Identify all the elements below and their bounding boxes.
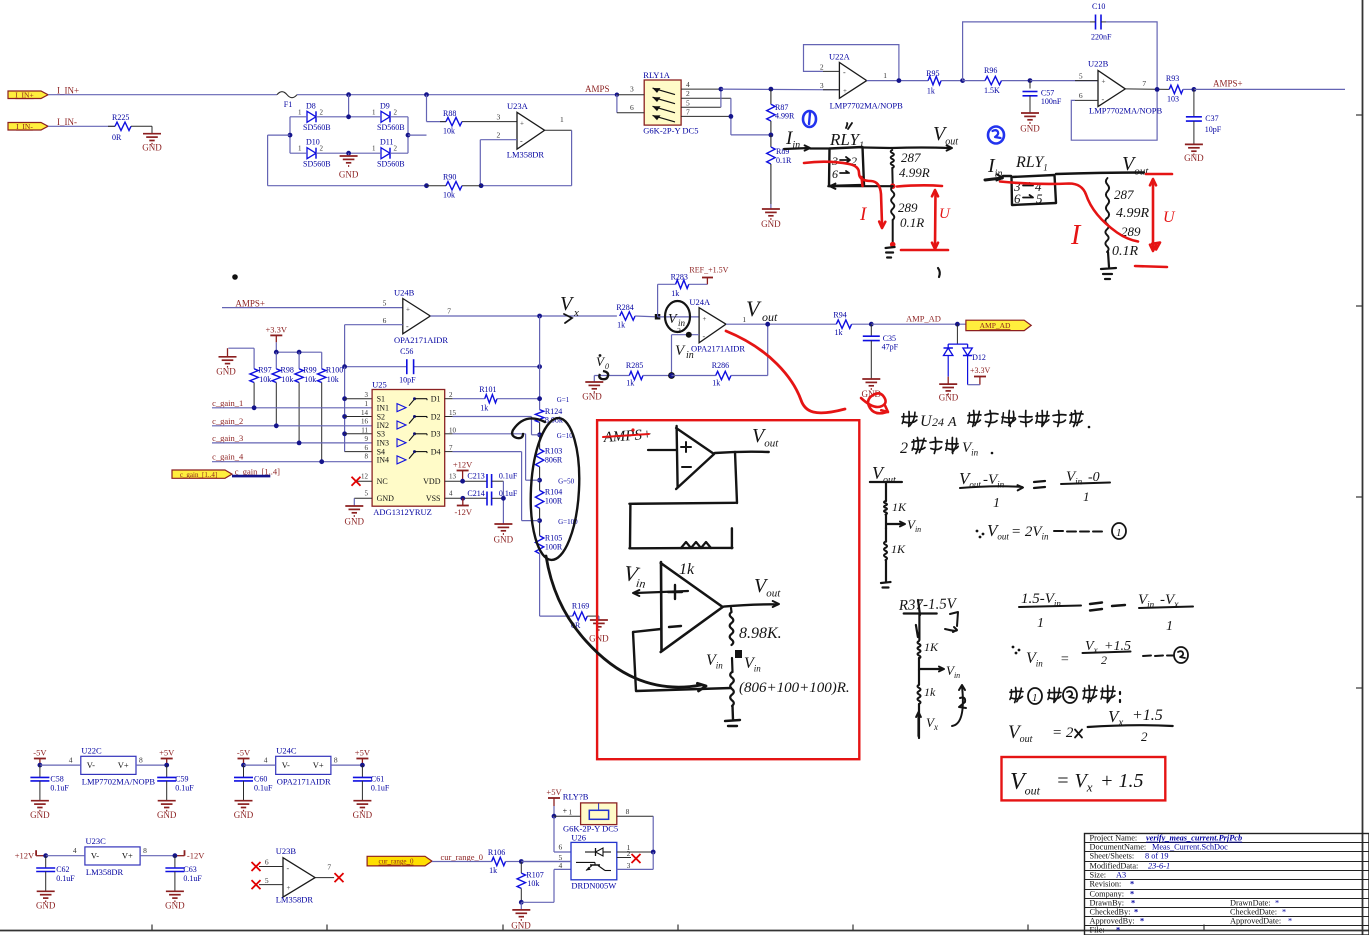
wire U22A output	[867, 80, 928, 82]
svg-text:2: 2	[820, 63, 824, 72]
hand ladder1 stem1	[885, 482, 887, 501]
hand ellipse hook	[512, 418, 545, 438]
wire U22A feedback loop	[804, 45, 899, 81]
svg-text:R100: R100	[326, 366, 343, 375]
ground below C63	[166, 890, 184, 892]
svg-text:8: 8	[334, 756, 338, 765]
svg-text:DocumentName:: DocumentName:	[1090, 843, 1147, 852]
node R107 bottom	[519, 900, 524, 905]
wire U22A pin2 stub	[823, 70, 839, 72]
diode D11	[381, 148, 390, 159]
capacitor C59	[166, 765, 168, 777]
svg-text:1.5K: 1.5K	[984, 86, 1000, 95]
svg-text:1: 1	[372, 145, 376, 153]
svg-text:0.1uF: 0.1uF	[175, 784, 194, 793]
svg-text:C58: C58	[50, 775, 63, 784]
svg-text:1k: 1k	[679, 561, 695, 578]
U24C left power -5V	[238, 758, 250, 760]
hand ink blob on V0 wire	[599, 371, 608, 379]
svg-text:1: 1	[569, 808, 573, 817]
svg-text:3: 3	[497, 113, 501, 122]
svg-text:DrawnBy:: DrawnBy:	[1090, 899, 1125, 908]
svg-text:RLY?B: RLY?B	[563, 792, 589, 802]
svg-text:R88: R88	[443, 109, 456, 118]
hand eq1 equals	[1034, 481, 1045, 488]
svg-text:+3.3V: +3.3V	[266, 324, 288, 334]
svg-text:*: *	[1130, 890, 1134, 899]
svg-text:REF_+1.5V: REF_+1.5V	[689, 266, 728, 275]
svg-text:GND: GND	[761, 219, 781, 229]
resistor R96	[963, 80, 986, 82]
svg-text:1: 1	[365, 400, 369, 408]
hand ladder2 Vx arrow	[918, 704, 920, 738]
svg-text:8 of 19: 8 of 19	[1145, 852, 1169, 861]
ground below D12	[939, 383, 957, 385]
svg-text:F1: F1	[284, 100, 292, 109]
svg-text:I: I	[1070, 220, 1082, 251]
capacitor C61	[361, 765, 363, 777]
svg-text:*: *	[1282, 908, 1286, 917]
wire U22B feedback loop	[1071, 89, 1157, 140]
ground below C57	[1021, 112, 1039, 114]
wire +5V to U26 pin6	[553, 816, 555, 852]
svg-text:1k: 1k	[835, 328, 843, 337]
svg-text:Sheet/Sheets:: Sheet/Sheets:	[1090, 852, 1135, 861]
svg-text:4.99R: 4.99R	[899, 165, 930, 180]
svg-text:GND: GND	[377, 494, 395, 503]
wire AMPS out net	[721, 88, 840, 91]
svg-text:D11: D11	[380, 138, 393, 147]
hand sketch1 gnd dot red	[890, 242, 896, 248]
svg-text:+: +	[563, 807, 568, 816]
node AMPS+ / C37	[1192, 87, 1197, 92]
power -12V	[462, 498, 464, 505]
wire R283 feedback	[657, 284, 659, 317]
svg-text:10pF: 10pF	[1205, 125, 1222, 134]
svg-text:c_gain_1: c_gain_1	[212, 398, 243, 408]
node R285-R286	[668, 372, 675, 379]
hand apostrophe	[938, 268, 940, 277]
hand ladder1 resistor1	[884, 501, 887, 515]
svg-text:*: *	[1288, 917, 1292, 926]
svg-text:2: 2	[449, 391, 453, 399]
svg-text:LMP7702MA/NOPB: LMP7702MA/NOPB	[1089, 106, 1163, 116]
U23C left power +12V	[35, 850, 37, 856]
svg-text:U24C: U24C	[276, 746, 297, 756]
wire AMPS+ out	[1194, 88, 1345, 90]
svg-text:1k: 1k	[489, 866, 497, 875]
svg-text:1: 1	[560, 115, 564, 124]
U26 pin3 wire	[652, 852, 654, 869]
svg-text:6: 6	[1079, 91, 1083, 100]
svg-text:2: 2	[320, 108, 324, 116]
sheet border bottom	[0, 930, 1369, 932]
svg-text:GND: GND	[494, 535, 514, 545]
svg-text:10k: 10k	[443, 191, 455, 200]
svg-text:GND: GND	[165, 901, 185, 911]
svg-text:15: 15	[449, 409, 457, 417]
hand ellipse around gain resistors	[527, 417, 582, 561]
svg-text:S3: S3	[377, 430, 385, 439]
capacitor C37	[1193, 89, 1195, 116]
svg-text:GND: GND	[142, 143, 162, 153]
svg-text:1: 1	[993, 496, 1000, 511]
hand sketch1 Vout wire	[892, 146, 950, 149]
svg-text:0.1uF: 0.1uF	[499, 472, 518, 481]
wire U24B output	[430, 315, 617, 317]
svg-text:GND: GND	[339, 170, 359, 180]
node R87-R89	[769, 133, 774, 138]
svg-text:S1: S1	[377, 395, 385, 404]
hand boxed sketch1 output and Vout	[715, 452, 769, 453]
svg-text:C37: C37	[1205, 114, 1218, 123]
svg-text:IN2: IN2	[377, 421, 389, 430]
svg-text:-5V: -5V	[33, 748, 47, 758]
svg-text:4: 4	[686, 80, 690, 89]
hand boxed sketch2 resistor 806	[731, 658, 734, 672]
svg-text:10k: 10k	[327, 375, 339, 384]
svg-text:*: *	[1140, 917, 1144, 926]
svg-text:GND: GND	[234, 810, 254, 820]
sheet border right	[1362, 0, 1364, 935]
svg-text:NC: NC	[377, 477, 388, 486]
svg-text:-12V: -12V	[455, 507, 473, 517]
resistor R99	[295, 369, 303, 383]
wire bridge bottom loop	[268, 185, 427, 187]
svg-text:AMP_AD: AMP_AD	[906, 314, 941, 324]
svg-text:2: 2	[1141, 729, 1148, 744]
U26 pin2 stub X	[617, 857, 631, 859]
hand sketch1 red bottom line	[901, 249, 948, 252]
svg-text:U23A: U23A	[507, 101, 529, 111]
svg-text:File:: File:	[1090, 926, 1105, 935]
svg-text:R99: R99	[303, 366, 316, 375]
resistor R90	[446, 182, 462, 190]
svg-text:LM358DR: LM358DR	[507, 150, 545, 160]
svg-text:+: +	[843, 87, 847, 95]
svg-text:ModifiedData:: ModifiedData:	[1090, 862, 1139, 871]
ground below C35	[862, 378, 880, 380]
wire S-pins vertical	[344, 367, 346, 452]
svg-text:C63: C63	[183, 865, 196, 874]
svg-text:LMP7702MA/NOPB: LMP7702MA/NOPB	[830, 101, 904, 111]
svg-text:0.1uF: 0.1uF	[50, 784, 69, 793]
svg-text:OPA2171AIDR: OPA2171AIDR	[277, 777, 331, 787]
svg-text:9: 9	[365, 435, 369, 443]
wire bridge right rail	[407, 117, 409, 153]
wire relay pins 2-7 join	[730, 98, 732, 135]
svg-text:2: 2	[394, 108, 398, 116]
wire U22A pin3 stub	[823, 89, 839, 91]
svg-text:R225: R225	[112, 113, 129, 122]
svg-text:6: 6	[558, 843, 562, 852]
svg-text:IN4: IN4	[377, 456, 389, 465]
svg-text:10k: 10k	[259, 375, 271, 384]
svg-text:GND: GND	[345, 517, 365, 527]
hand boxed sketch2 plus input wire	[634, 591, 688, 593]
resistor R94	[836, 320, 851, 328]
svg-text:100nF: 100nF	[1041, 97, 1062, 106]
svg-text:LMP7702MA/NOPB: LMP7702MA/NOPB	[82, 777, 156, 787]
svg-text:D2: D2	[431, 412, 441, 421]
relay RLY1A	[644, 80, 681, 125]
hand ladder2 resistor2	[918, 670, 920, 685]
hand ladder1 resistor2	[885, 528, 887, 542]
svg-text:SD560B: SD560B	[377, 160, 405, 169]
svg-text:GND: GND	[36, 901, 56, 911]
svg-text:1K: 1K	[891, 542, 906, 556]
svg-text:3: 3	[820, 81, 824, 90]
svg-text:1: 1	[1032, 692, 1038, 704]
svg-text:2: 2	[686, 89, 690, 98]
IC U26 DRDN005W	[571, 842, 617, 879]
hand red curve Vout to note	[726, 331, 845, 413]
svg-text:2: 2	[627, 849, 631, 858]
capacitor C62	[45, 856, 47, 868]
port AMP_AD	[966, 320, 1031, 330]
bullet dot	[232, 274, 238, 280]
svg-text:4: 4	[73, 846, 77, 855]
ground below C59	[158, 800, 176, 802]
svg-text:U: U	[939, 206, 951, 222]
svg-text:+12V: +12V	[453, 460, 473, 470]
svg-text:Meas_Current.SchDoc: Meas_Current.SchDoc	[1152, 843, 1228, 852]
hand ladder2 tap Vin	[919, 658, 942, 670]
resistor R107	[520, 862, 522, 874]
svg-text:+5V: +5V	[159, 748, 175, 758]
wire V0 net	[594, 375, 629, 377]
capacitor C35	[870, 324, 872, 336]
hand sketch2 red strike	[1000, 182, 1138, 242]
U22C right power +5V	[136, 764, 167, 766]
wire relay pin1	[554, 815, 581, 817]
capacitor C56	[345, 366, 407, 368]
svg-text:U22B: U22B	[1088, 59, 1109, 69]
ground V0	[593, 376, 595, 383]
svg-text:7: 7	[1142, 79, 1146, 88]
U26 internal transistor	[576, 861, 595, 863]
wire U24B pin6	[345, 324, 403, 326]
wire R105 to R169	[539, 554, 541, 617]
svg-text:6: 6	[383, 316, 387, 325]
wire U22B pin5 stub	[1075, 80, 1098, 82]
node C35	[869, 322, 874, 327]
svg-text:cur_range_0: cur_range_0	[379, 858, 414, 866]
wire D2 to G=10 node	[445, 416, 453, 418]
hand ladder2 stem	[916, 600, 920, 640]
svg-text:I_IN+: I_IN+	[57, 86, 79, 96]
svg-text:R106: R106	[488, 848, 505, 857]
svg-text:10k: 10k	[443, 127, 455, 136]
svg-text:R105: R105	[545, 534, 562, 543]
hand boxed sketch1 feedback loop	[629, 452, 737, 548]
svg-text:0.1uF: 0.1uF	[371, 784, 390, 793]
svg-text:4.99R: 4.99R	[775, 112, 795, 121]
U25 switch glyphs	[397, 404, 406, 412]
resistor R284	[620, 312, 635, 320]
svg-text:100R: 100R	[545, 543, 563, 552]
svg-text:OPA2171AIDR: OPA2171AIDR	[691, 344, 745, 354]
svg-text:6: 6	[265, 858, 269, 867]
diode D9	[381, 111, 390, 122]
svg-text:ApprovedBy:: ApprovedBy:	[1090, 917, 1135, 926]
svg-text:U22C: U22C	[81, 746, 102, 756]
handwritten Vin circled at pin3	[665, 301, 690, 332]
hand sketch2 box	[1012, 175, 1057, 205]
svg-text:U: U	[1163, 209, 1176, 226]
svg-text:2: 2	[394, 145, 398, 153]
hand eq2 equals minus	[1090, 603, 1125, 611]
svg-text:8.98K.: 8.98K.	[739, 625, 782, 642]
hand eq1 conclusion	[976, 530, 979, 533]
wire bridge bottom row	[290, 152, 307, 154]
svg-text:10pF: 10pF	[399, 376, 416, 385]
svg-text:x: x	[573, 307, 579, 319]
svg-text:5: 5	[383, 299, 387, 308]
wire AMPS+ to U24B pin5	[222, 307, 403, 309]
svg-text:8: 8	[365, 452, 369, 460]
svg-text:OPA2171AIDR: OPA2171AIDR	[394, 335, 448, 345]
hand sketch1 red tick	[862, 177, 863, 186]
svg-text:SD560B: SD560B	[303, 160, 331, 169]
node D12 tap	[955, 322, 960, 327]
svg-text:= 2: = 2	[1052, 725, 1074, 741]
svg-text:11: 11	[361, 426, 368, 434]
svg-text:V-: V-	[282, 760, 290, 770]
capacitor C57	[1029, 81, 1031, 89]
svg-text:cur_range_0: cur_range_0	[441, 852, 483, 862]
title block	[1085, 834, 1369, 935]
wire U24A output	[726, 323, 836, 325]
svg-text:ADG1312YRUZ: ADG1312YRUZ	[373, 507, 432, 517]
node G=100	[537, 518, 542, 523]
resistor R89	[770, 135, 772, 147]
svg-text:1: 1	[1083, 489, 1090, 504]
svg-text:5: 5	[686, 98, 690, 107]
svg-text:+: +	[406, 306, 410, 314]
svg-text:3: 3	[365, 391, 369, 399]
svg-text:V+: V+	[118, 760, 129, 770]
svg-text:R94: R94	[833, 311, 846, 320]
ground below C214	[494, 523, 512, 525]
svg-text:7: 7	[327, 863, 331, 872]
svg-text:-: -	[703, 332, 706, 341]
wire U24A pin2	[672, 334, 700, 336]
svg-text:1: 1	[298, 108, 302, 116]
U23B output stub with X	[315, 877, 334, 879]
hand ladder2 hook2	[952, 685, 966, 726]
svg-text:U26: U26	[571, 833, 586, 843]
IC U22C power part	[81, 756, 136, 774]
svg-text:2: 2	[900, 440, 908, 457]
svg-text:16: 16	[361, 418, 369, 426]
svg-text:8: 8	[143, 846, 147, 855]
svg-text:0.1uF: 0.1uF	[56, 874, 75, 883]
hand result red box	[1002, 757, 1166, 800]
U23C right power -12V	[140, 855, 175, 857]
hand sketch1 resistor 287	[891, 150, 894, 168]
svg-text:I_IN-: I_IN-	[57, 117, 77, 127]
svg-text:+ 1.5: + 1.5	[1100, 770, 1144, 792]
svg-text:C61: C61	[371, 775, 384, 784]
svg-text:2: 2	[497, 131, 501, 140]
svg-text:R90: R90	[443, 173, 456, 182]
hand red analysis box	[597, 420, 859, 759]
svg-text:VSS: VSS	[426, 494, 441, 503]
hand sketch2 ground	[1101, 252, 1116, 279]
svg-text:G=1: G=1	[557, 396, 570, 404]
svg-text:0.1R: 0.1R	[900, 215, 924, 230]
svg-text:GND: GND	[353, 810, 373, 820]
svg-text:+: +	[703, 315, 707, 323]
svg-text:U23B: U23B	[276, 846, 297, 856]
diode D10	[307, 148, 316, 159]
svg-text:CheckedBy:: CheckedBy:	[1090, 908, 1131, 917]
svg-text:4: 4	[264, 756, 268, 765]
svg-text:0R: 0R	[112, 133, 122, 142]
svg-text:6: 6	[365, 444, 369, 452]
wire U22B output	[1125, 88, 1169, 91]
svg-text:R169: R169	[572, 602, 589, 611]
U23B pin6 stub with X	[259, 866, 283, 868]
svg-text:*: *	[1131, 899, 1135, 908]
svg-text:AMPS: AMPS	[585, 84, 610, 94]
svg-text:-: -	[1102, 95, 1105, 104]
svg-text:1k: 1k	[617, 321, 625, 330]
wire C10 feedback loop	[963, 22, 1090, 81]
power +3.3V	[270, 334, 282, 336]
resistor R97	[250, 369, 258, 383]
capacitor C58	[39, 765, 41, 777]
power +5V relay	[548, 797, 560, 799]
diode D8	[307, 111, 316, 122]
svg-text:GND: GND	[582, 392, 602, 402]
svg-text:*: *	[1134, 908, 1138, 917]
wire R88 branch vertical	[424, 92, 429, 97]
svg-text:1k: 1k	[924, 685, 936, 699]
svg-text:U25: U25	[372, 380, 387, 390]
svg-text:7: 7	[447, 307, 451, 316]
svg-text:C10: C10	[1092, 2, 1105, 11]
svg-text:R285: R285	[626, 361, 643, 370]
svg-text:(806+100+100)R.: (806+100+100)R.	[739, 680, 850, 696]
svg-text:+5V: +5V	[355, 748, 371, 758]
svg-text:2: 2	[320, 145, 324, 153]
svg-text:D3: D3	[431, 430, 441, 439]
hand boxed sketch1 feedback resistor	[681, 542, 711, 548]
hand red spiral arrow	[861, 393, 887, 413]
svg-text:47pF: 47pF	[882, 343, 899, 352]
svg-text:100R: 100R	[545, 497, 563, 506]
svg-text:1: 1	[1037, 616, 1044, 631]
resistor R100	[318, 369, 326, 383]
hand blue circled 1	[803, 111, 816, 127]
svg-text:U24B: U24B	[394, 288, 415, 298]
port I_IN-	[8, 123, 48, 131]
svg-text:G6K-2P-Y DC5: G6K-2P-Y DC5	[643, 126, 698, 136]
svg-text:U22A: U22A	[829, 52, 851, 62]
svg-text:+5V: +5V	[546, 787, 562, 797]
svg-text:V-: V-	[87, 760, 95, 770]
svg-text:D10: D10	[306, 138, 320, 147]
svg-text:R96: R96	[984, 66, 997, 75]
svg-text:R286: R286	[712, 361, 729, 370]
resistor R87	[770, 89, 772, 104]
resistor R93	[1169, 85, 1183, 93]
svg-text:V: V	[668, 312, 678, 327]
wire I_IN+ main	[48, 94, 277, 96]
resistor R283	[676, 280, 689, 288]
